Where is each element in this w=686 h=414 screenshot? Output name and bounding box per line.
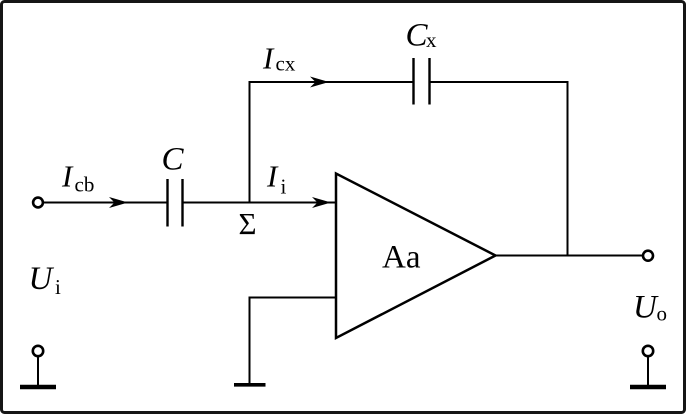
svg-text:U: U bbox=[29, 261, 55, 297]
svg-text:x: x bbox=[426, 28, 437, 52]
svg-text:I: I bbox=[61, 159, 74, 194]
svg-text:U: U bbox=[633, 290, 659, 326]
svg-text:I: I bbox=[262, 41, 275, 76]
svg-text:cb: cb bbox=[75, 173, 95, 197]
svg-text:I: I bbox=[266, 159, 279, 194]
svg-text:C: C bbox=[162, 142, 185, 178]
svg-text:Aa: Aa bbox=[382, 240, 421, 276]
svg-text:i: i bbox=[55, 275, 61, 299]
svg-text:o: o bbox=[657, 302, 668, 326]
svg-text:i: i bbox=[281, 175, 287, 199]
svg-text:cx: cx bbox=[276, 51, 296, 75]
svg-text:Σ: Σ bbox=[239, 206, 257, 241]
